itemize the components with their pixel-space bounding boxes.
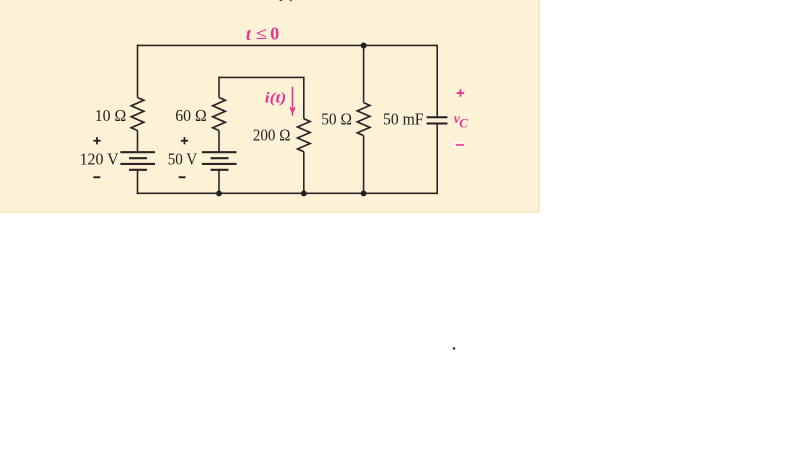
current arrow i(t) — [290, 87, 295, 116]
svg-text:C: C — [459, 117, 468, 131]
wire: 60Ω branch lower segment — [218, 170, 220, 194]
stray dot (in white area) — [453, 347, 456, 350]
wire: 60Ω branch between resistor and battery — [218, 131, 220, 153]
wire: left branch upper segment — [137, 45, 139, 98]
wire: left branch between resistor and battery — [137, 131, 139, 153]
svg-text:10 Ω: 10 Ω — [95, 106, 127, 125]
wire: inner rail (60Ω top to 200Ω top) — [219, 76, 304, 78]
stray mark (top edge left) — [280, 0, 283, 1]
battery V2 50 V — [202, 152, 237, 170]
wire: 200Ω branch lower segment — [303, 152, 305, 194]
wire: 50Ω branch lower segment — [363, 136, 365, 195]
wire: bottom rail — [137, 192, 438, 194]
junction node (top, 50Ω branch) — [361, 43, 367, 49]
svg-text:60 Ω: 60 Ω — [175, 106, 207, 125]
wire: 200Ω branch upper segment — [303, 77, 305, 119]
svg-text:50 mF: 50 mF — [383, 110, 424, 129]
resistor 50Ω — [357, 103, 370, 136]
wire: capacitor branch upper segment — [436, 45, 438, 118]
wire: top rail — [137, 44, 438, 46]
wire: 50Ω branch upper segment — [363, 45, 365, 102]
resistor 60Ω — [213, 98, 226, 131]
wire: left branch lower segment — [137, 170, 139, 194]
junction node (bottom, 50Ω branch) — [361, 190, 367, 196]
figure background panel — [0, 0, 540, 213]
wire: capacitor branch lower segment — [436, 124, 438, 195]
capacitor C 50 mF — [427, 117, 448, 123]
label + (V2) — [181, 137, 188, 144]
label − (V1) — [94, 176, 101, 178]
junction node (bottom, 200Ω branch) — [301, 190, 307, 196]
junction node (bottom, 60Ω branch) — [216, 190, 222, 196]
svg-text:50 Ω: 50 Ω — [321, 110, 352, 129]
resistor 10Ω — [131, 98, 144, 131]
svg-text:120 V: 120 V — [80, 149, 119, 168]
label + (vC) — [457, 89, 465, 97]
svg-text:≤: ≤ — [256, 24, 267, 43]
wire: 60Ω branch upper segment — [218, 77, 220, 98]
svg-text:50 V: 50 V — [168, 149, 198, 168]
label − (V2) — [179, 176, 186, 178]
svg-text:i(t): i(t) — [265, 91, 286, 107]
svg-text:200 Ω: 200 Ω — [253, 125, 291, 144]
stray mark (top edge right) — [290, 0, 292, 1]
label + (V1) — [93, 137, 100, 144]
battery V1 120 V — [120, 152, 155, 170]
svg-text:0: 0 — [270, 24, 279, 44]
resistor 200Ω — [298, 119, 311, 152]
label t ≤ 0 — [246, 24, 279, 44]
label − (vC) with white halo — [454, 142, 466, 148]
